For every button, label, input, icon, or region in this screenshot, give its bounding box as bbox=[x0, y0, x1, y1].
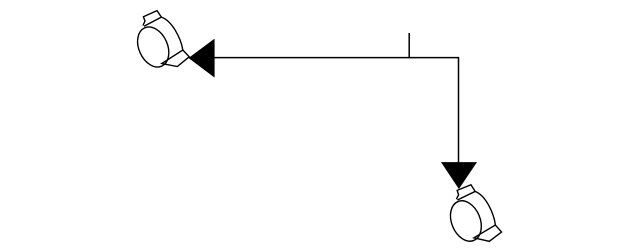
bulb socket (upper left) bbox=[132, 11, 190, 72]
arrowhead pointing left at upper socket bbox=[189, 39, 215, 78]
bulb socket (lower right) bbox=[443, 184, 503, 247]
wire stub (vertical tick) bbox=[408, 33, 410, 58]
arrowhead pointing down at lower socket bbox=[441, 162, 477, 189]
wire: horizontal run with corner down bbox=[214, 58, 459, 163]
